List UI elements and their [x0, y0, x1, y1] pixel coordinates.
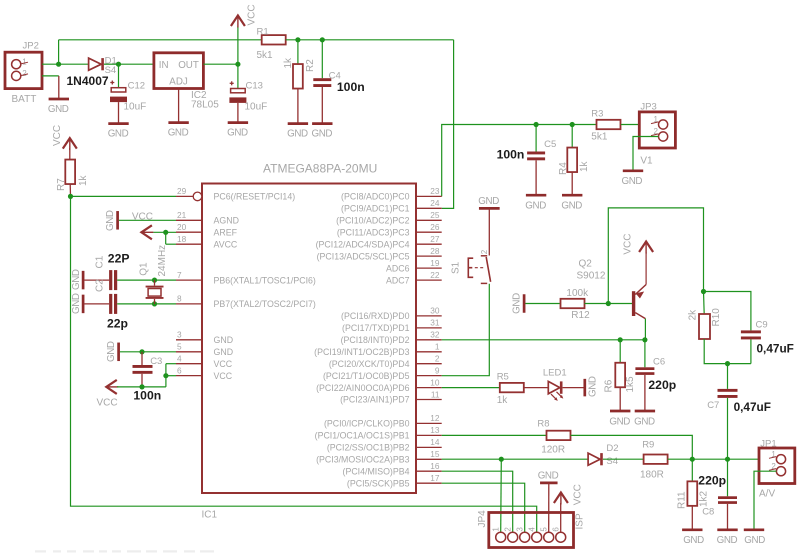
wire gnd to pin5	[120, 351, 176, 353]
wire base rail up and over	[608, 208, 703, 304]
wire junction down to R2	[297, 40, 299, 65]
svg-text:2k: 2k	[688, 309, 699, 321]
wire junction down to AVCC	[165, 232, 167, 244]
label R4 1k rotated	[579, 160, 590, 172]
wire gnd to C1	[84, 279, 109, 281]
svg-text:(PCI2/SS/OC1B)PB2: (PCI2/SS/OC1B)PB2	[327, 443, 410, 453]
ground under R6	[609, 411, 630, 427]
svg-text:ADC6: ADC6	[386, 263, 410, 273]
node junction collector-C6	[642, 337, 647, 342]
wire C6 to ground	[644, 375, 646, 411]
svg-text:1k: 1k	[579, 160, 590, 172]
svg-text:GND: GND	[588, 376, 599, 397]
wire R4 to ground	[571, 172, 573, 195]
svg-text:1k5: 1k5	[625, 376, 636, 393]
svg-text:VCC: VCC	[97, 398, 118, 409]
svg-text:100n: 100n	[497, 148, 525, 162]
wire C2 to pin8	[117, 303, 176, 305]
node junction R1-R2	[295, 37, 300, 42]
wire pin10 to R5	[442, 387, 500, 389]
wire junction up to VCC	[237, 27, 239, 65]
svg-text:JP2: JP2	[23, 41, 39, 52]
svg-text:R3: R3	[591, 109, 603, 120]
label C13 name	[246, 80, 263, 91]
svg-text:25: 25	[430, 210, 440, 220]
svg-text:GND: GND	[214, 347, 234, 357]
label C1 value 22P	[108, 251, 130, 265]
svg-text:78L05: 78L05	[191, 99, 219, 110]
label JP3 value V1	[640, 155, 653, 166]
svg-text:(PCI18/INT0)PD2: (PCI18/INT0)PD2	[341, 335, 410, 345]
label R10 2k rotated	[688, 309, 699, 321]
wire junction down to C12	[118, 64, 120, 88]
svg-text:LED1: LED1	[543, 368, 567, 379]
svg-text:GND: GND	[214, 335, 234, 345]
svg-text:0,47uF: 0,47uF	[757, 342, 794, 356]
svg-text:15: 15	[430, 449, 440, 459]
svg-text:24MHz: 24MHz	[157, 245, 168, 277]
svg-text:1: 1	[492, 527, 501, 532]
label Q2 value S9012	[577, 270, 606, 281]
wire VCC to R7	[69, 148, 71, 160]
label IC1 name	[202, 510, 218, 521]
svg-text:VCC: VCC	[214, 371, 233, 381]
resistor R7	[65, 160, 75, 185]
svg-text:1: 1	[22, 57, 27, 66]
svg-text:5: 5	[540, 527, 549, 532]
label S1 rotated	[450, 261, 461, 274]
label D2 S4	[606, 456, 618, 467]
ground under IC2 ADJ	[168, 123, 189, 139]
connector JP1	[759, 448, 795, 484]
label D1 S4	[105, 65, 117, 76]
label IC2 value 78L05	[191, 99, 219, 110]
svg-text:120R: 120R	[541, 445, 565, 456]
svg-text:C12: C12	[128, 80, 145, 91]
power VCC arrow ISP	[554, 493, 568, 505]
svg-text:C2: C2	[95, 279, 106, 292]
label C7 name	[707, 400, 719, 411]
wire junction to pin29	[71, 195, 177, 197]
svg-text:R7: R7	[56, 178, 67, 191]
node junction R6	[618, 337, 623, 342]
node junction pin15-ISP1	[499, 457, 504, 462]
wire JP2 pin2 down to ground	[58, 76, 60, 99]
capacitor C5	[527, 152, 545, 161]
svg-text:ADJ: ADJ	[169, 76, 188, 87]
label C4 value 100n	[337, 80, 365, 94]
node junction RESET	[68, 194, 73, 199]
svg-text:S1: S1	[450, 261, 461, 274]
node junction base	[606, 301, 611, 306]
decor bottom cut text	[35, 550, 214, 552]
svg-text:R2: R2	[305, 59, 316, 72]
svg-text:S4: S4	[606, 456, 618, 467]
label R12 name	[571, 310, 590, 321]
ground above S1	[478, 196, 499, 209]
svg-text:Q2: Q2	[579, 259, 593, 270]
svg-text:(PCI20/XCK/T0)PD4: (PCI20/XCK/T0)PD4	[329, 359, 410, 369]
svg-text:5: 5	[177, 342, 182, 352]
svg-text:(PCI21/T1/OC0B)PD5: (PCI21/T1/OC0B)PD5	[323, 371, 410, 381]
wire junction down to C3	[141, 352, 143, 365]
svg-text:100n: 100n	[337, 80, 365, 94]
svg-text:JP4: JP4	[477, 510, 488, 528]
svg-text:23: 23	[430, 186, 440, 196]
node junction base-R10-C9	[701, 289, 706, 294]
node junction rail-C5	[534, 122, 539, 127]
svg-text:GND: GND	[525, 201, 546, 212]
capacitor C9	[741, 330, 761, 339]
node junction GND-C3	[139, 349, 144, 354]
ground under JP3	[622, 171, 644, 187]
label R3 value 5k1	[591, 132, 608, 143]
wire VCC line to corner	[117, 386, 166, 388]
svg-text:GND: GND	[634, 416, 655, 427]
label JP4 name rotated	[477, 510, 488, 528]
wire R8 to output node	[571, 435, 693, 459]
svg-text:1k: 1k	[78, 174, 89, 186]
resistor R1	[262, 35, 286, 44]
transistor Q2	[632, 285, 646, 319]
wire gnd to C2	[84, 303, 109, 305]
label R5 value 1k	[497, 395, 509, 406]
IC U1 ATmega88 box	[202, 184, 416, 494]
wire AGND to pin21	[119, 219, 176, 221]
svg-text:29: 29	[177, 186, 187, 196]
svg-text:2: 2	[435, 354, 440, 364]
svg-text:10uF: 10uF	[124, 102, 147, 113]
label JP2 value BATT	[12, 94, 37, 105]
connector JP4	[489, 513, 574, 548]
crystal Q1	[146, 280, 164, 304]
wire C12 to ground	[118, 102, 120, 124]
label C4 name	[329, 71, 341, 82]
capacitor C6	[635, 367, 654, 375]
resistor R9	[644, 455, 668, 464]
label R6 name rotated	[604, 379, 615, 392]
label Q2 name	[579, 259, 593, 270]
svg-text:32: 32	[430, 330, 440, 340]
wire pin15 to junction	[442, 458, 502, 460]
wire ISP1 down	[500, 459, 503, 532]
label Q1 rotated	[139, 262, 150, 276]
svg-text:VCC: VCC	[247, 4, 258, 25]
svg-text:1k: 1k	[497, 395, 509, 406]
label C9 value 0,47uF	[757, 342, 794, 356]
label C1 rotated	[95, 255, 106, 268]
svg-text:V1: V1	[640, 155, 653, 166]
label C8 name	[702, 507, 714, 518]
switch S1	[468, 256, 490, 284]
svg-text:R10: R10	[711, 308, 722, 327]
resistor R4	[567, 148, 577, 173]
ground under C12	[108, 124, 129, 140]
svg-text:(PCI17/TXD)PD1: (PCI17/TXD)PD1	[342, 323, 410, 333]
label S1 pin2 rotated	[480, 249, 489, 254]
capacitor C8	[718, 496, 737, 504]
capacitor C3	[133, 365, 153, 374]
wire D1 cathode to junction	[104, 63, 119, 65]
svg-text:10: 10	[430, 377, 440, 387]
wire R7 to junction	[69, 184, 71, 196]
svg-text:R1: R1	[257, 27, 269, 38]
wire RESET loop to ISP pin4	[71, 196, 537, 532]
svg-text:10uF: 10uF	[245, 102, 268, 113]
label VCC text C3	[97, 398, 118, 409]
label R11 name rotated	[677, 491, 688, 509]
svg-text:2: 2	[504, 527, 513, 532]
svg-text:28: 28	[430, 246, 440, 256]
svg-text:1k: 1k	[283, 57, 294, 69]
label C12 value 10uF	[124, 102, 147, 113]
wire C6 stem	[644, 340, 646, 368]
ground under R2	[287, 124, 308, 140]
wire C9 branch top	[704, 292, 751, 331]
svg-text:8: 8	[177, 294, 182, 304]
svg-text:C3: C3	[150, 356, 162, 367]
label VCC text AREF	[132, 212, 153, 223]
label C9 name	[756, 320, 768, 331]
capacitor C1	[109, 270, 117, 290]
svg-text:Q1: Q1	[139, 262, 150, 276]
wire pin13 to R8	[442, 434, 547, 436]
svg-text:VCC: VCC	[573, 484, 584, 505]
svg-text:1k2: 1k2	[699, 490, 710, 507]
resistor R8	[547, 431, 571, 440]
svg-text:(PCI22/AIN0OC0A)PD6: (PCI22/AIN0OC0A)PD6	[316, 383, 409, 393]
diode D1	[89, 58, 103, 70]
label R7 1k rotated	[78, 174, 89, 186]
wire C8 stem	[727, 459, 729, 496]
IC1 pins and pin labels	[176, 186, 442, 488]
wire JP2 pin2	[42, 75, 59, 77]
ground under JP2	[48, 99, 69, 115]
resistor R12	[561, 299, 585, 308]
svg-text:R6: R6	[604, 379, 615, 392]
wire rail corner down to pin24	[442, 40, 454, 209]
resistor R3	[597, 120, 621, 129]
power VCC arrow left C3	[106, 380, 118, 394]
label C5 name	[544, 139, 556, 150]
svg-text:R8: R8	[537, 419, 549, 430]
label R4 name rotated	[558, 162, 569, 175]
svg-text:(PCI1/OC1A/OC1S)PB1: (PCI1/OC1A/OC1S)PB1	[315, 431, 410, 441]
label R11 value 1k2 rotated	[699, 490, 710, 507]
svg-text:14: 14	[430, 437, 440, 447]
wire C5 to ground	[535, 160, 537, 195]
svg-text:180R: 180R	[640, 469, 664, 480]
svg-text:(PCI10/ADC2)PC2: (PCI10/ADC2)PC2	[336, 216, 409, 226]
wire S1 to pin9	[442, 284, 490, 376]
regulator IC2 box	[154, 53, 204, 89]
label D2 name	[606, 443, 618, 454]
ground C3 rotated	[106, 341, 118, 362]
wire to pin18 AVCC	[166, 243, 176, 245]
svg-text:(PCI11/ADC3)PC3: (PCI11/ADC3)PC3	[337, 227, 410, 237]
resistor R5	[500, 383, 524, 392]
svg-text:(PCI4/MISO)PB4: (PCI4/MISO)PB4	[343, 466, 410, 476]
capacitor C12	[110, 81, 127, 103]
node junction XTAL2	[152, 301, 157, 306]
svg-text:GND: GND	[512, 293, 523, 314]
node junction C3 bottom	[139, 384, 144, 389]
ground under R4	[561, 195, 582, 211]
svg-text:9: 9	[435, 365, 440, 375]
capacitor C7	[718, 389, 738, 398]
wire gnd down to S1	[488, 208, 490, 255]
label R6 value 1k5 rotated	[625, 376, 636, 393]
svg-text:GND: GND	[227, 128, 248, 139]
label R9 name	[642, 440, 654, 451]
wire R5 to LED	[524, 387, 549, 389]
wire R11 to ground	[691, 506, 693, 530]
svg-text:20: 20	[177, 222, 187, 232]
svg-text:(PCI5/SCK)PB5: (PCI5/SCK)PB5	[347, 478, 410, 488]
svg-text:IC1: IC1	[202, 510, 218, 521]
wire junction to IC2 IN	[119, 63, 154, 65]
wire R12 to junction	[585, 303, 609, 305]
wire C7 down to output node	[727, 398, 729, 459]
ground under C5	[525, 195, 546, 211]
LED LED1	[548, 381, 563, 401]
wire junction to base	[608, 303, 632, 305]
svg-text:22P: 22P	[108, 251, 130, 265]
label R9 value 180R	[640, 469, 664, 480]
svg-text:220p: 220p	[698, 474, 726, 488]
label JP2 name	[23, 41, 39, 52]
svg-text:ADC7: ADC7	[386, 275, 410, 285]
svg-text:(PCI16/RXD)PD0: (PCI16/RXD)PD0	[341, 311, 410, 321]
svg-text:22p: 22p	[107, 316, 128, 330]
wire junction down to C4	[321, 40, 323, 78]
svg-text:OUT: OUT	[178, 60, 199, 71]
svg-text:GND: GND	[561, 201, 582, 212]
wire R3 to JP3	[621, 124, 659, 126]
label C2 rotated	[95, 279, 106, 292]
label JP4 value ISP rotated	[574, 513, 585, 529]
label R2 name rotated	[305, 59, 316, 72]
svg-text:26: 26	[430, 222, 440, 232]
svg-text:220p: 220p	[648, 378, 676, 392]
label R7 name rotated	[56, 178, 67, 191]
svg-text:5k1: 5k1	[591, 132, 608, 143]
diode D2	[588, 453, 601, 465]
wire pin17 to ISP3	[442, 483, 525, 532]
svg-text:GND: GND	[609, 416, 630, 427]
svg-text:GND: GND	[105, 210, 116, 231]
svg-text:GND: GND	[717, 535, 738, 546]
wire R2 to ground	[297, 89, 299, 124]
svg-text:AVCC: AVCC	[214, 239, 238, 249]
svg-text:21: 21	[177, 210, 187, 220]
svg-text:5k1: 5k1	[257, 50, 274, 61]
ground C2 rotated	[71, 293, 83, 314]
svg-text:11: 11	[431, 389, 440, 399]
wire VCC to AREF	[153, 231, 176, 233]
svg-text:100k: 100k	[566, 288, 589, 299]
svg-text:GND: GND	[71, 293, 82, 314]
node junction C7-C8	[725, 457, 730, 462]
svg-text:D2: D2	[606, 443, 618, 454]
wire C8 to ground	[727, 504, 729, 530]
power VCC arrow left AREF	[141, 225, 153, 239]
svg-text:GND: GND	[622, 176, 643, 187]
label LED1 name	[543, 368, 567, 379]
wire JP3 pin2 to ground	[633, 137, 659, 171]
label VCC rotated ISP	[573, 484, 584, 505]
svg-text:R9: R9	[642, 440, 654, 451]
svg-text:R5: R5	[497, 372, 509, 383]
svg-text:17: 17	[430, 473, 440, 483]
svg-text:ATMEGA88PA-20MU: ATMEGA88PA-20MU	[263, 162, 377, 176]
svg-text:(PCI9/ADC1)PC1: (PCI9/ADC1)PC1	[341, 204, 410, 214]
svg-text:VCC: VCC	[622, 233, 633, 254]
wire pin16 to ISP2	[442, 471, 513, 532]
svg-text:16: 16	[430, 461, 440, 471]
svg-text:4: 4	[177, 354, 182, 364]
svg-text:PB7(XTAL2/TOSC2/PCI7): PB7(XTAL2/TOSC2/PCI7)	[214, 299, 316, 309]
wire junction down to C13	[237, 64, 239, 88]
label D1 value 1N4007	[67, 74, 109, 88]
svg-text:0,47uF: 0,47uF	[734, 400, 771, 414]
wire R10 down to node	[704, 339, 751, 364]
wire gnd to R12	[525, 303, 560, 305]
node junction rail-R4	[570, 122, 575, 127]
wire IC2 OUT to junction	[203, 63, 238, 65]
wire R4 stem top	[571, 125, 573, 148]
label R1 value 5k1	[257, 50, 274, 61]
wire C4 to ground	[321, 87, 323, 124]
svg-text:12: 12	[430, 413, 440, 423]
svg-text:GND: GND	[538, 471, 559, 482]
label JP3 name	[640, 102, 656, 113]
wire VCC to ISP6	[560, 503, 562, 532]
label VCC rotated Q2	[622, 233, 633, 254]
wire junction to D1 anode	[59, 63, 89, 65]
svg-text:JP3: JP3	[640, 102, 656, 113]
svg-text:1: 1	[435, 342, 440, 352]
node junction AREF-AVCC	[163, 230, 168, 235]
svg-text:BATT: BATT	[12, 94, 37, 105]
wire junction to D2	[501, 458, 588, 460]
node junction R10-C9-C7	[725, 361, 730, 366]
wire top rail to R1	[59, 39, 262, 41]
label IC2 pin IN	[159, 60, 169, 71]
svg-text:18: 18	[177, 234, 187, 244]
label C7 value 0,47uF	[734, 400, 771, 414]
label R8 name	[537, 419, 549, 430]
power VCC arrow Q2	[639, 242, 653, 254]
svg-text:30: 30	[430, 306, 440, 316]
wire R1 to junctions rail	[286, 39, 454, 41]
svg-text:19: 19	[430, 258, 440, 268]
svg-text:(PCI0/ICP/CLKO)PB0: (PCI0/ICP/CLKO)PB0	[324, 419, 410, 429]
label C13 value 10uF	[245, 102, 268, 113]
ground under JP1	[744, 530, 765, 546]
wire C5 stem	[535, 125, 537, 152]
wire to pin6	[166, 375, 176, 377]
svg-text:C7: C7	[707, 400, 719, 411]
wire node down to C7	[727, 364, 729, 389]
label C3 name	[150, 356, 162, 367]
svg-text:GND: GND	[478, 196, 499, 207]
wire JP1 pin2 to ground	[754, 471, 776, 530]
svg-text:GND: GND	[683, 535, 704, 546]
wire node to JP1	[728, 458, 777, 460]
wire emitter up to VCC	[645, 253, 647, 285]
svg-text:GND: GND	[71, 269, 82, 290]
